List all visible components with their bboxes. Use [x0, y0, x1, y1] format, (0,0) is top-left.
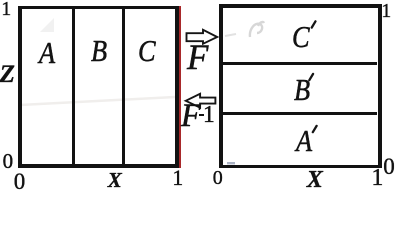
right square left edge — [219, 4, 223, 168]
axis 0 left — [3, 151, 14, 172]
horizontal divider 2 (B'|A') — [223, 112, 378, 115]
label F of F-1 — [181, 100, 201, 133]
axis X bottom-left square — [108, 170, 122, 191]
left square top edge — [18, 6, 179, 9]
axis tick 1 top-left — [1, 0, 11, 19]
prime of A' — [313, 126, 317, 132]
superscript 1 of F-1 — [203, 103, 215, 127]
axis 1 bottom-right square — [371, 166, 383, 190]
label C' — [292, 21, 310, 52]
left square left edge — [18, 6, 22, 169]
axis Z — [0, 62, 15, 87]
arrow F (right-pointing outline) — [0, 0, 407, 190]
axis 1 top-right — [381, 1, 391, 21]
label B — [91, 35, 107, 66]
right square bottom edge — [219, 165, 383, 169]
label A' — [296, 125, 312, 156]
axis 0 bottom-left — [14, 170, 26, 193]
superscript minus of F-1 — [199, 114, 204, 116]
label F — [187, 39, 208, 75]
label C — [138, 35, 156, 66]
right square right edge — [378, 4, 383, 168]
left square bottom edge — [18, 164, 179, 168]
arrow F-1 (left-pointing outline) — [186, 94, 216, 108]
label A — [39, 37, 55, 68]
axis 0 bottom-right outer — [383, 155, 395, 178]
prime of B' — [309, 74, 313, 80]
axis 0 bottom-left of right square — [213, 168, 223, 188]
axis 1 bottom of left square — [172, 167, 183, 189]
red fringe on right edge — [179, 6, 181, 169]
label B' — [294, 74, 310, 105]
left square right edge — [175, 6, 179, 169]
divider line 2 (B|C) — [122, 9, 125, 165]
prime of C' — [312, 21, 316, 27]
horizontal divider 1 (C'|B') — [223, 62, 378, 65]
divider line 1 (A|B) — [72, 9, 75, 165]
right square top edge — [219, 4, 383, 8]
watermark squiggle — [0, 0, 407, 190]
axis X bottom-right square — [307, 168, 323, 192]
